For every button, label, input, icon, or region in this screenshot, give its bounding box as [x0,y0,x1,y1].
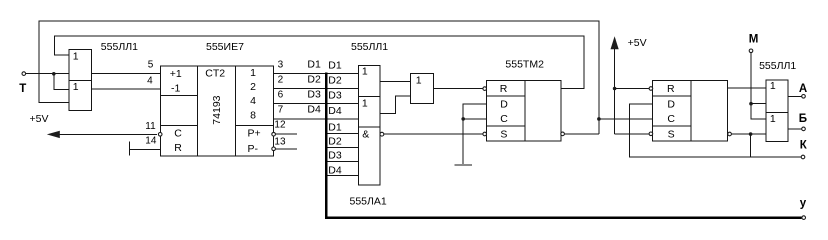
NAND output wire to S [380,132,483,136]
svg-text:P-: P- [248,143,259,155]
svg-text:+5V: +5V [628,37,647,49]
wire +5V to S2 [615,133,650,135]
pin 14 reset input with common bar [130,136,161,156]
svg-text:+5V: +5V [30,113,49,125]
node junction on T wire [52,72,69,89]
OR gate DD2.3 box [410,74,433,104]
svg-text:D4: D4 [328,164,342,176]
OR gate DD1 box 555ЛЛ1 [69,50,92,111]
svg-text:12: 12 [274,120,286,131]
pin 11 load input with bubble and +5V arrow [47,121,162,138]
svg-text:1: 1 [770,113,776,125]
terminal T [19,72,26,95]
svg-text:+1: +1 [170,68,182,80]
wire OR3 output to R [433,88,483,90]
svg-text:74193: 74193 [211,95,223,124]
node R2 from +5V [613,87,649,91]
wire FF2 Q to gate [728,87,766,89]
svg-text:555ЛЛ1: 555ЛЛ1 [351,41,388,53]
svg-text:Б: Б [799,113,807,125]
svg-text:8: 8 [250,109,256,121]
svg-text:P+: P+ [248,127,261,139]
svg-text:D4: D4 [328,105,342,117]
wire M vertical [751,53,766,119]
bus thick line to terminal y [326,73,801,218]
pin 13 P- stub [272,137,297,151]
OR gate DD4 box 555ЛЛ1 right [766,80,788,142]
wire pin 3 net D1 [274,58,359,73]
svg-text:1: 1 [362,66,368,78]
wire pin 5 [92,59,161,73]
node M to gate4 input [749,102,766,106]
svg-text:C: C [500,113,508,125]
svg-text:D3: D3 [328,90,342,102]
NAND input wire D1 [328,121,359,133]
wire T input [26,73,69,75]
svg-text:11: 11 [145,121,156,132]
svg-text:R: R [667,83,675,95]
svg-text:у: у [800,197,807,209]
svg-text:555ИЕ7: 555ИЕ7 [206,41,244,53]
svg-text:1: 1 [770,80,776,92]
svg-text:D4: D4 [307,104,321,116]
svg-text:S: S [500,128,507,140]
svg-text:R: R [500,83,508,95]
gate stack DD2 box 555ЛЛ1 / 555ЛА1 [359,66,381,185]
svg-text:1: 1 [416,74,422,86]
NAND input wire D3 [328,150,359,162]
wire pin 4 [92,76,161,89]
wire feedback inner from Q [54,36,584,89]
terminal M [749,34,759,53]
svg-text:D1: D1 [328,121,342,133]
terminal y [800,197,807,219]
ground symbol [454,164,472,166]
svg-text:D: D [667,99,675,111]
svg-text:555ЛЛ1: 555ЛЛ1 [101,41,138,53]
wire pin 2 net D2 [274,74,359,89]
power +5V arrow right [611,36,647,134]
svg-text:1: 1 [250,67,256,79]
svg-text:D2: D2 [328,136,342,148]
svg-text:555ЛА1: 555ЛА1 [350,196,387,208]
FF2 Q-inv bubble [728,132,732,136]
svg-text:D1: D1 [307,58,321,70]
svg-text:6: 6 [278,90,284,101]
svg-text:2: 2 [250,81,256,93]
wire OR2 output stepped [380,96,410,114]
svg-text:3: 3 [278,59,284,70]
svg-text:C: C [174,128,182,140]
terminal B [799,113,807,131]
svg-text:D3: D3 [307,89,321,101]
wire pin 7 net D4 with P row divider [273,104,358,119]
flip-flop U3b 555ТМ2 box [653,80,728,141]
svg-text:13: 13 [274,137,286,148]
flip-flop U3a 555ТМ2 box [487,80,561,141]
svg-text:R: R [174,142,182,154]
svg-text:14: 14 [145,136,157,147]
svg-text:1: 1 [73,81,79,93]
svg-text:А: А [799,83,807,95]
counter U2 555ИЕ7 box [160,66,273,156]
svg-text:7: 7 [278,105,284,116]
svg-text:CT2: CT2 [205,67,225,79]
svg-text:&: & [362,128,369,140]
svg-text:-1: -1 [171,83,180,95]
wire FF2 Q-inv to gate with node to K [731,132,766,157]
svg-text:D: D [500,99,508,111]
wire A output [788,95,802,97]
FF2 R bubble [649,87,653,91]
svg-text:C: C [667,113,675,125]
svg-text:2: 2 [278,75,284,86]
node C2 branch [597,117,653,121]
svg-text:1: 1 [73,50,79,62]
wire OR1 output [380,80,410,82]
svg-text:М: М [749,34,759,46]
FF1 S bubble [483,132,487,136]
svg-text:555ЛЛ1: 555ЛЛ1 [759,60,796,72]
ground branch for D and C [461,104,486,164]
svg-text:1: 1 [362,98,368,110]
svg-text:D2: D2 [328,75,342,87]
svg-text:D1: D1 [328,59,342,71]
wire FF1 Q-inv to feedback riser [564,133,599,135]
FF2 S bubble [649,132,653,136]
wire K net to D2 [630,104,802,157]
svg-text:D2: D2 [307,74,321,86]
svg-text:4: 4 [147,76,153,87]
wire feedback outer from Q-inv [39,21,599,134]
pin 12 P+ stub [272,120,297,136]
svg-text:К: К [800,140,808,152]
svg-text:5: 5 [148,59,154,70]
svg-text:555ТМ2: 555ТМ2 [505,59,544,71]
NAND input wire D4 [328,164,359,176]
FF1 Q-inv bubble [561,132,565,136]
terminal A [799,83,807,98]
wire B output [788,128,802,130]
svg-text:Т: Т [19,83,26,95]
NAND input wire D2 [328,136,359,148]
svg-text:D3: D3 [328,150,342,162]
FF1 R bubble [483,87,487,91]
svg-text:S: S [668,128,675,140]
wire pin 6 net D3 [274,89,359,104]
terminal K [800,140,808,159]
svg-text:4: 4 [250,95,256,107]
